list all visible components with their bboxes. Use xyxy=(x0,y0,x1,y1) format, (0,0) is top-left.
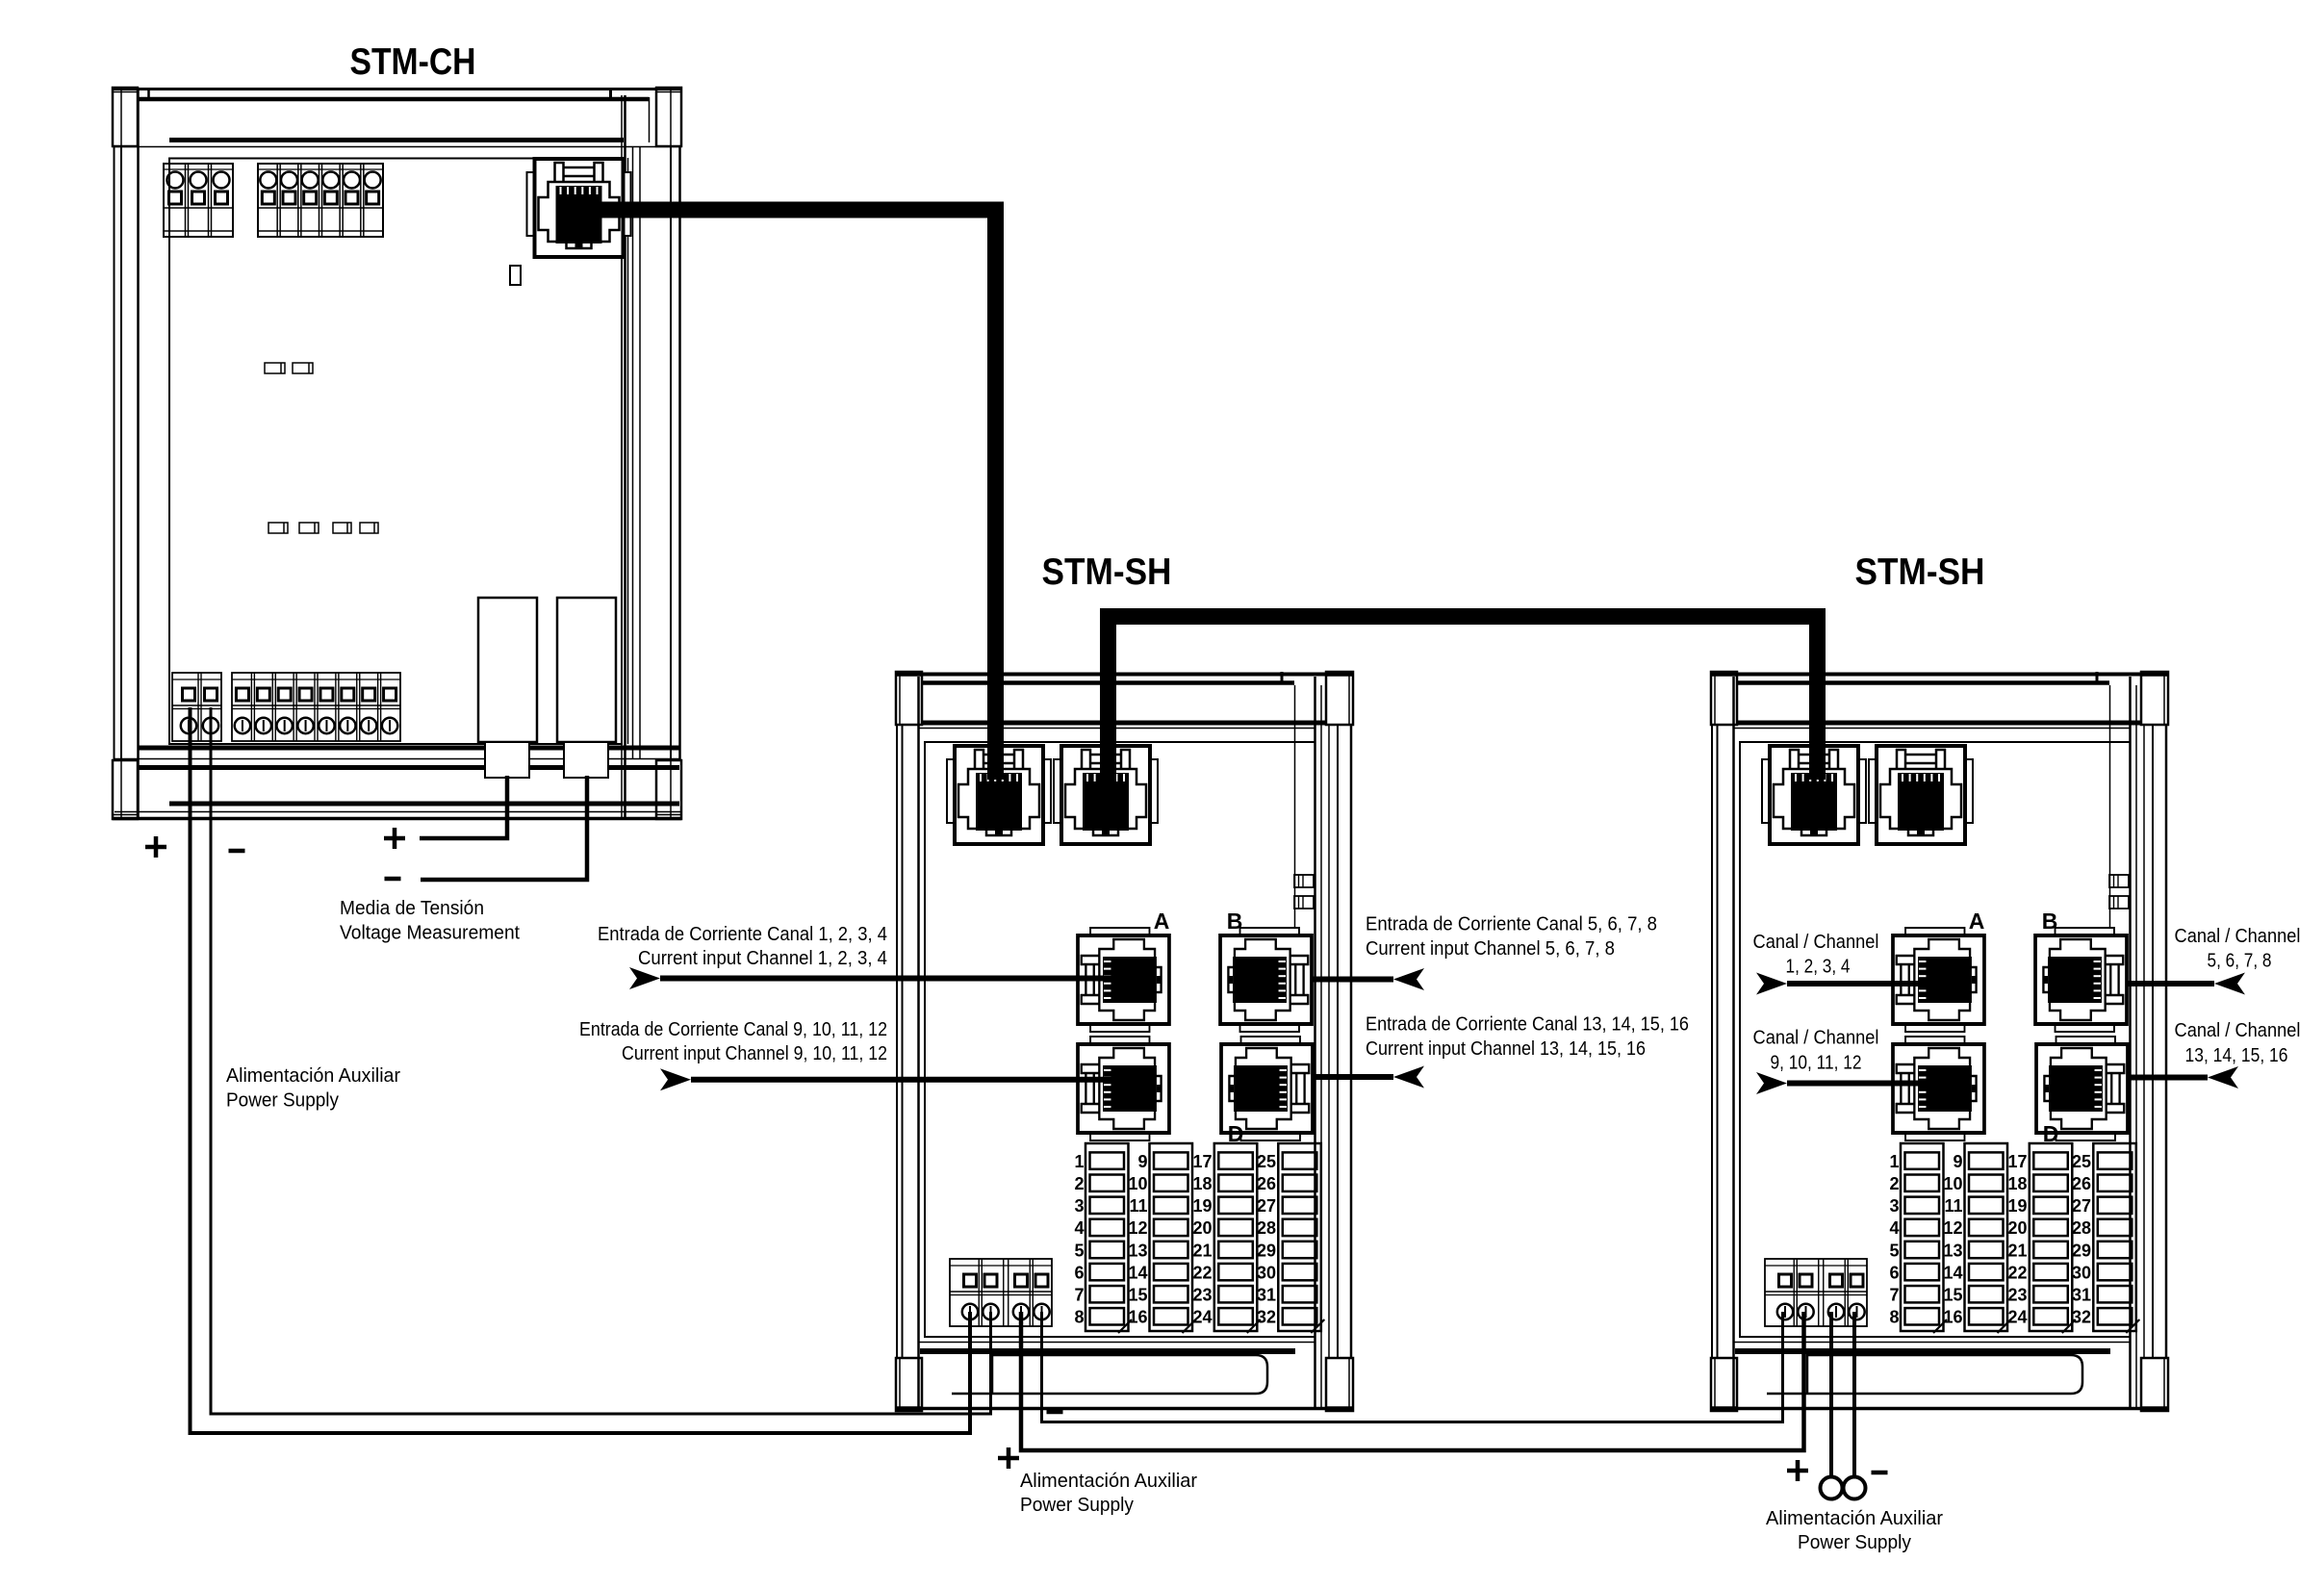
svg-text:1: 1 xyxy=(1074,1152,1084,1171)
svg-text:29: 29 xyxy=(1257,1241,1276,1260)
svg-text:19: 19 xyxy=(2007,1196,2027,1216)
svg-text:6: 6 xyxy=(1889,1263,1899,1282)
svg-text:20: 20 xyxy=(2007,1218,2027,1238)
svg-text:23: 23 xyxy=(1192,1286,1212,1305)
svg-text:Canal / Channel: Canal / Channel xyxy=(2175,1020,2301,1041)
svg-text:4: 4 xyxy=(1889,1218,1899,1238)
svg-text:2: 2 xyxy=(1889,1174,1899,1193)
svg-text:7: 7 xyxy=(1074,1286,1084,1305)
svg-text:9, 10, 11, 12: 9, 10, 11, 12 xyxy=(1771,1052,1862,1073)
svg-text:A: A xyxy=(1969,909,1985,934)
svg-text:32: 32 xyxy=(2072,1308,2091,1327)
svg-text:12: 12 xyxy=(1943,1218,1962,1238)
svg-text:Alimentación Auxiliar: Alimentación Auxiliar xyxy=(1020,1471,1197,1492)
svg-text:Voltage Measurement: Voltage Measurement xyxy=(340,923,520,944)
svg-text:27: 27 xyxy=(2072,1196,2091,1216)
svg-text:Power Supply: Power Supply xyxy=(1798,1532,1911,1553)
svg-text:18: 18 xyxy=(1192,1174,1212,1193)
svg-text:STM-SH: STM-SH xyxy=(1042,551,1172,593)
svg-text:8: 8 xyxy=(1074,1308,1084,1327)
svg-text:Current input Channel 5, 6, 7,: Current input Channel 5, 6, 7, 8 xyxy=(1366,938,1615,960)
svg-text:11: 11 xyxy=(1944,1196,1962,1216)
svg-text:STM-SH: STM-SH xyxy=(1855,551,1985,593)
svg-text:Canal / Channel: Canal / Channel xyxy=(1753,932,1879,953)
svg-text:30: 30 xyxy=(2072,1263,2091,1282)
svg-text:23: 23 xyxy=(2007,1286,2027,1305)
svg-text:5, 6, 7, 8: 5, 6, 7, 8 xyxy=(2208,951,2272,972)
svg-text:26: 26 xyxy=(2072,1174,2091,1193)
svg-text:20: 20 xyxy=(1192,1218,1212,1238)
svg-text:24: 24 xyxy=(1192,1308,1212,1327)
svg-text:21: 21 xyxy=(1192,1241,1212,1260)
svg-text:5: 5 xyxy=(1074,1241,1084,1260)
svg-text:22: 22 xyxy=(2007,1263,2027,1282)
svg-text:10: 10 xyxy=(1128,1174,1147,1193)
svg-text:2: 2 xyxy=(1074,1174,1084,1193)
svg-text:Media de Tensión: Media de Tensión xyxy=(340,898,484,919)
svg-text:5: 5 xyxy=(1889,1241,1899,1260)
svg-text:9: 9 xyxy=(1137,1152,1147,1171)
svg-text:1, 2, 3, 4: 1, 2, 3, 4 xyxy=(1786,957,1851,978)
svg-text:3: 3 xyxy=(1074,1196,1084,1216)
svg-text:13: 13 xyxy=(1128,1241,1147,1260)
svg-text:STM-CH: STM-CH xyxy=(350,41,476,83)
svg-text:19: 19 xyxy=(1192,1196,1212,1216)
svg-text:31: 31 xyxy=(1257,1286,1276,1305)
svg-text:15: 15 xyxy=(1128,1286,1147,1305)
svg-text:8: 8 xyxy=(1889,1308,1899,1327)
svg-text:17: 17 xyxy=(1192,1152,1212,1171)
svg-text:Canal / Channel: Canal / Channel xyxy=(2175,926,2301,947)
svg-text:Entrada de Corriente Canal 13,: Entrada de Corriente Canal 13, 14, 15, 1… xyxy=(1366,1014,1689,1036)
svg-text:22: 22 xyxy=(1192,1263,1212,1282)
svg-text:9: 9 xyxy=(1953,1152,1962,1171)
svg-text:Current input Channel 13, 14,: Current input Channel 13, 14, 15, 16 xyxy=(1366,1038,1646,1060)
svg-text:13: 13 xyxy=(1943,1241,1962,1260)
svg-text:28: 28 xyxy=(2072,1218,2091,1238)
svg-text:16: 16 xyxy=(1943,1308,1962,1327)
svg-text:3: 3 xyxy=(1889,1196,1899,1216)
svg-text:B: B xyxy=(2042,909,2058,934)
svg-text:Entrada de Corriente Canal 5,: Entrada de Corriente Canal 5, 6, 7, 8 xyxy=(1366,914,1657,935)
svg-text:25: 25 xyxy=(1257,1152,1276,1171)
svg-text:B: B xyxy=(1227,909,1243,934)
svg-text:25: 25 xyxy=(2072,1152,2091,1171)
svg-text:7: 7 xyxy=(1889,1286,1899,1305)
svg-text:D: D xyxy=(2043,1121,2059,1146)
svg-text:Canal / Channel: Canal / Channel xyxy=(1753,1028,1879,1049)
svg-text:4: 4 xyxy=(1074,1218,1084,1238)
svg-text:Entrada de Corriente Canal 1,: Entrada de Corriente Canal 1, 2, 3, 4 xyxy=(598,924,887,945)
svg-text:27: 27 xyxy=(1257,1196,1276,1216)
svg-text:Current input Channel 9, 10, 1: Current input Channel 9, 10, 11, 12 xyxy=(622,1043,887,1064)
svg-text:16: 16 xyxy=(1128,1308,1147,1327)
svg-text:10: 10 xyxy=(1943,1174,1962,1193)
svg-text:Current input Channel 1, 2, 3,: Current input Channel 1, 2, 3, 4 xyxy=(638,948,887,969)
svg-text:28: 28 xyxy=(1257,1218,1276,1238)
svg-text:29: 29 xyxy=(2072,1241,2091,1260)
svg-text:12: 12 xyxy=(1128,1218,1147,1238)
svg-text:15: 15 xyxy=(1943,1286,1962,1305)
svg-text:Power Supply: Power Supply xyxy=(226,1090,339,1112)
svg-text:30: 30 xyxy=(1257,1263,1276,1282)
svg-text:Alimentación Auxiliar: Alimentación Auxiliar xyxy=(1766,1508,1943,1529)
svg-text:14: 14 xyxy=(1128,1263,1147,1282)
svg-text:A: A xyxy=(1154,909,1170,934)
svg-text:24: 24 xyxy=(2007,1308,2027,1327)
svg-text:Entrada de Corriente Canal 9,: Entrada de Corriente Canal 9, 10, 11, 12 xyxy=(579,1019,887,1040)
svg-text:11: 11 xyxy=(1129,1196,1147,1216)
svg-text:13, 14, 15, 16: 13, 14, 15, 16 xyxy=(2185,1045,2288,1066)
svg-text:Alimentación Auxiliar: Alimentación Auxiliar xyxy=(226,1065,400,1087)
svg-text:14: 14 xyxy=(1943,1263,1962,1282)
svg-text:26: 26 xyxy=(1257,1174,1276,1193)
svg-text:Power Supply: Power Supply xyxy=(1020,1495,1134,1516)
svg-text:17: 17 xyxy=(2007,1152,2027,1171)
svg-text:31: 31 xyxy=(2072,1286,2091,1305)
svg-text:D: D xyxy=(1228,1121,1244,1146)
svg-text:21: 21 xyxy=(2007,1241,2027,1260)
svg-text:18: 18 xyxy=(2007,1174,2027,1193)
svg-text:32: 32 xyxy=(1257,1308,1276,1327)
svg-text:1: 1 xyxy=(1889,1152,1899,1171)
svg-text:6: 6 xyxy=(1074,1263,1084,1282)
